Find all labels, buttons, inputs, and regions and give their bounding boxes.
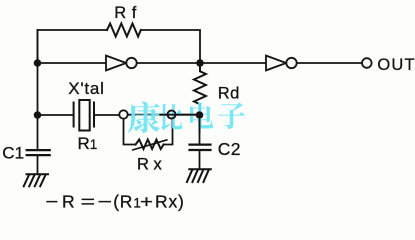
svg-text:+: +: [140, 192, 153, 212]
svg-text:R f: R f: [114, 4, 137, 22]
svg-text:(R: (R: [113, 192, 133, 212]
wire C2 to ground: [199, 151, 201, 169]
svg-text:−: −: [45, 192, 58, 212]
wire node A to node B: [128, 114, 168, 116]
svg-text:C2: C2: [218, 139, 241, 159]
svg-text:R x: R x: [137, 156, 163, 174]
wire Rf to right rail: [141, 30, 200, 62]
node B open terminal: [168, 111, 176, 119]
wire top feedback rail: [38, 30, 108, 62]
svg-text:−: −: [97, 192, 112, 212]
ground below C1: [24, 174, 48, 186]
node junction inverter1 output: [196, 59, 204, 67]
capacitor C2: [190, 145, 211, 150]
op-amp U1 inverter: [106, 56, 126, 71]
wire Rx loop right: [164, 118, 173, 144]
op-amp U2 inverter: [266, 56, 286, 71]
node junction Rd C2: [196, 111, 204, 119]
capacitor C1: [27, 150, 50, 155]
wire junction to C2: [199, 115, 201, 144]
svg-text:=: =: [81, 192, 96, 212]
svg-text:Rd: Rd: [218, 85, 240, 103]
wire left rail: [37, 30, 39, 149]
resistor Rx variable: [136, 140, 164, 150]
crystal X'tal: [74, 100, 94, 131]
svg-text:X'tal: X'tal: [68, 79, 105, 98]
node A open terminal: [119, 110, 127, 118]
node junction Rd C2: [196, 111, 203, 118]
node OUT terminal: [362, 58, 372, 68]
svg-text:R1: R1: [78, 134, 98, 153]
ground below C2: [187, 169, 211, 182]
node B open terminal: [168, 111, 176, 119]
wire C1 to ground: [37, 156, 39, 174]
wire inverter2 input: [200, 62, 266, 64]
wire Rx loop left: [124, 119, 136, 144]
svg-text:Rx): Rx): [155, 192, 185, 212]
watermark 康比电子: [128, 102, 245, 133]
wire crystal input: [38, 114, 74, 116]
node junction left-inverter input: [34, 59, 42, 67]
wire node B to junction: [176, 114, 200, 116]
wire inverter2 output: [297, 62, 362, 64]
wire crystal to node A: [94, 114, 119, 116]
wire node B to junction: [161, 114, 196, 116]
wire junction to C2: [199, 119, 201, 132]
svg-text:OUT: OUT: [377, 56, 415, 74]
svg-text:C1: C1: [2, 144, 24, 163]
wire inverter1 input: [38, 62, 107, 64]
resistor Rf: [107, 24, 141, 37]
label formula -R = -(R1+Rx): [45, 192, 184, 212]
svg-text:R: R: [62, 192, 75, 212]
wire inverter1 output to node: [137, 62, 200, 64]
node junction crystal input: [34, 111, 42, 119]
resistor Rd: [194, 63, 206, 115]
